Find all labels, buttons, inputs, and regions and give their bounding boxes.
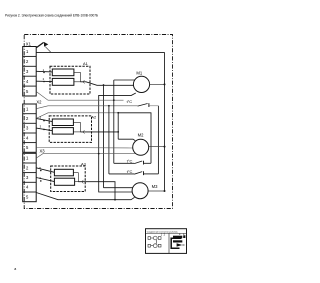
tiny wire digits (39, 68, 44, 180)
wire M1 right to bus (150, 83, 165, 85)
X1 pin numbers (26, 49, 29, 199)
wire X2.1 run (36, 106, 137, 109)
svg-text:X3: X3 (40, 149, 46, 154)
wire X1.4 to A1 (36, 80, 52, 82)
svg-text:1: 1 (161, 234, 163, 237)
connector labels (26, 41, 45, 153)
wires (36, 52, 164, 199)
svg-text:2: 2 (43, 77, 45, 81)
heater block A3 (51, 161, 86, 191)
wire M1 feed bottom / M3 mid feed (99, 93, 136, 192)
svg-text:Соединение контактов разъёма: Соединение контактов разъёма (147, 231, 179, 233)
wire X3.5 to M3 (36, 193, 134, 200)
svg-text:5: 5 (26, 194, 29, 199)
thermal contact SK2 (M2 upper) (114, 161, 151, 165)
junction dots (40, 72, 166, 201)
wire X2.5 to M2 (36, 147, 133, 150)
svg-text:A2: A2 (91, 114, 96, 119)
svg-text:а: а (14, 267, 16, 271)
svg-text:2: 2 (26, 165, 29, 170)
svg-text:2: 2 (164, 234, 166, 237)
svg-text:5: 5 (26, 145, 29, 150)
legend plug icon (171, 234, 185, 249)
wire vertical phase to contact SK3 (108, 106, 110, 174)
svg-text:3: 3 (26, 175, 29, 180)
svg-text:2: 2 (26, 116, 29, 121)
wire vertical phase M1 top / contact SK2 (113, 80, 115, 163)
wire X2.2 to A2 (36, 118, 52, 121)
connector X3 (23, 153, 37, 201)
top arrow (supply) (36, 42, 51, 52)
motor M2 (133, 132, 149, 155)
legend mini contact rows (148, 236, 161, 248)
svg-text:X2: X2 (36, 99, 42, 104)
wire M3 right to bus (148, 190, 164, 192)
wire X2.2 run3 (36, 113, 118, 119)
heater block A1 (50, 61, 90, 94)
svg-text:2: 2 (26, 59, 29, 64)
svg-text:X1: X1 (26, 41, 32, 46)
svg-text:t°C: t°C (127, 99, 133, 104)
wire right bus (164, 52, 166, 191)
connector X1 (23, 47, 37, 97)
svg-text:4: 4 (26, 135, 29, 140)
svg-text:M2: M2 (138, 132, 144, 137)
heater block A2 (49, 114, 96, 142)
wire M2 right to bus (149, 146, 165, 148)
wire A2 out (80, 131, 118, 133)
svg-text:4: 4 (26, 185, 29, 190)
wire X3.1 to M2 (36, 154, 135, 159)
svg-text:A1: A1 (83, 61, 88, 66)
svg-text:5: 5 (26, 89, 29, 94)
t°C labels (127, 99, 133, 174)
wire M2 top feed (118, 139, 135, 140)
connector X2 (23, 104, 37, 152)
wire vertical to M2 top feed (117, 113, 119, 139)
legend box bottom right (146, 229, 187, 254)
motor M3 (132, 183, 158, 199)
motor M1 (133, 70, 149, 92)
svg-text:3: 3 (26, 126, 29, 131)
svg-text:M3: M3 (152, 184, 158, 189)
wire X1.1 top run (36, 51, 164, 53)
wire X2.3 to A2 (36, 128, 52, 131)
wire mid vertical to M3 top (103, 85, 105, 188)
svg-text:1: 1 (26, 49, 29, 54)
wire run3 black segment and riser to contact SK2 output (118, 113, 151, 164)
wire X1.5 run (36, 92, 123, 101)
wire X3.3 to A3 (36, 178, 54, 182)
enclosure frame (dash-dot) (24, 35, 172, 209)
svg-text:1: 1 (26, 106, 29, 111)
wire X3.2 to A3 (36, 168, 54, 173)
wire A1 out to M1 (80, 82, 133, 86)
svg-text:1: 1 (26, 156, 29, 161)
thermal contact SK3 (M2 lower) (109, 171, 158, 175)
wire X1.3 to A1 (36, 70, 52, 73)
wire M1 feed top (114, 79, 135, 81)
svg-text:3: 3 (26, 69, 29, 74)
svg-text:t°C: t°C (127, 159, 133, 164)
svg-text:A3: A3 (81, 161, 86, 166)
wire SK1 output down to SK3 output (157, 106, 159, 174)
wire A3 out down (78, 182, 115, 200)
svg-text:3: 3 (40, 125, 42, 129)
svg-text:Рисунок 2. Электрическая схема: Рисунок 2. Электрическая схема соединени… (5, 13, 98, 17)
thermal contact SK1 (M1) (138, 103, 159, 107)
svg-text:4: 4 (26, 79, 29, 84)
svg-text:5: 5 (39, 166, 41, 170)
svg-text:M1: M1 (136, 70, 142, 75)
svg-text:t°C: t°C (127, 169, 133, 174)
wire M3 top feed (104, 187, 134, 189)
